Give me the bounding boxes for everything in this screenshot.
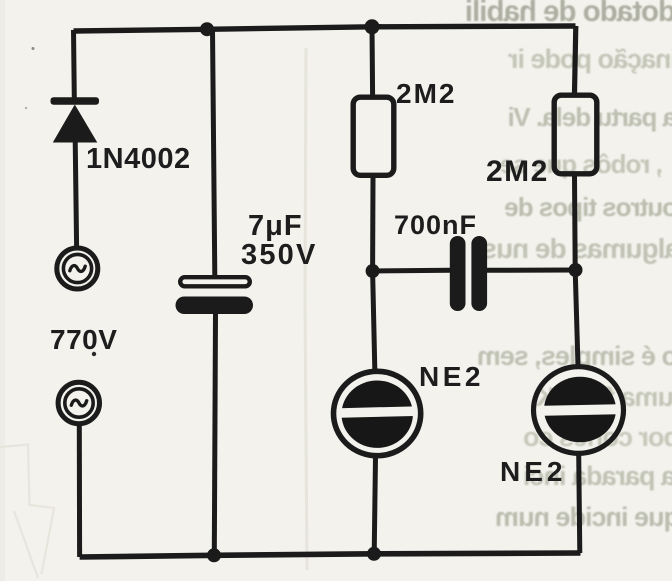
- wire resistor R2 to node B: [572, 177, 578, 271]
- wire left branch: corner to diode: [71, 30, 77, 98]
- neon lamp L1 NE2: [334, 371, 421, 455]
- node junction bottom (L1 branch): [367, 547, 381, 561]
- svg-text:NE2: NE2: [500, 456, 566, 487]
- wire capacitor C1 to bottom rail: [214, 314, 215, 555]
- wire diode to AC source 1: [75, 140, 76, 247]
- node junction top (R1 branch): [365, 19, 380, 34]
- wire 100nF left segment: [373, 268, 450, 274]
- wire neon L1 to bottom rail: [374, 457, 375, 554]
- svg-text:700nF: 700nF: [394, 210, 477, 240]
- node B junction (right end of 100nF wire): [569, 263, 583, 277]
- svg-text:770V: 770V: [50, 324, 117, 355]
- wire top rail to capacitor C1: [213, 29, 215, 276]
- wire top rail: [74, 26, 576, 31]
- wire neon L2 to bottom rail corner: [579, 454, 580, 554]
- bleed-through mirrored text column: [0, 0, 1, 1]
- node junction top (cap branch): [200, 22, 214, 36]
- svg-text:350V: 350V: [241, 239, 318, 271]
- resistor R1 2M2: [353, 97, 394, 175]
- svg-text:NE2: NE2: [419, 361, 484, 392]
- wire right vertical (top rail corner down to R2): [575, 26, 576, 93]
- node junction bottom (cap branch): [207, 548, 221, 562]
- wire node A to neon lamp NE2 #1: [373, 271, 375, 369]
- diode D1 1N4002: [51, 97, 100, 142]
- svg-text:7μF: 7μF: [248, 210, 303, 242]
- svg-text:inação pode ir: inação pode ir: [507, 44, 672, 74]
- resistor R2 2M2: [554, 95, 597, 174]
- svg-text:que incide num: que incide num: [496, 502, 672, 532]
- wire top rail to resistor R1: [370, 27, 376, 96]
- capacitor C1 1uF 350V: [176, 277, 254, 314]
- svg-text:2M2: 2M2: [486, 155, 549, 188]
- svg-text:a partu dela. Vi: a partu dela. Vi: [509, 102, 672, 132]
- wire bottom rail: [80, 553, 581, 557]
- AC source G1 (upper circle): [57, 248, 98, 289]
- capacitor C2 100nF: [450, 236, 487, 311]
- wire resistor R1 to node A: [370, 178, 375, 271]
- wire node B to neon lamp L2: [575, 270, 578, 366]
- scan artifact: bottom-left crease lines: [0, 48, 307, 578]
- small ink specks: [32, 47, 35, 50]
- svg-text:2M2: 2M2: [396, 78, 456, 109]
- wire 100nF right segment: [487, 268, 576, 273]
- node A junction (left end of 100nF wire): [366, 264, 380, 278]
- AC source G2 (lower circle): [58, 382, 99, 423]
- svg-text:1N4002: 1N4002: [86, 143, 191, 175]
- wire AC source 2 to bottom rail: [77, 425, 82, 558]
- neon lamp L2 NE2: [534, 367, 625, 454]
- svg-text:outros tipos de: outros tipos de: [505, 192, 672, 222]
